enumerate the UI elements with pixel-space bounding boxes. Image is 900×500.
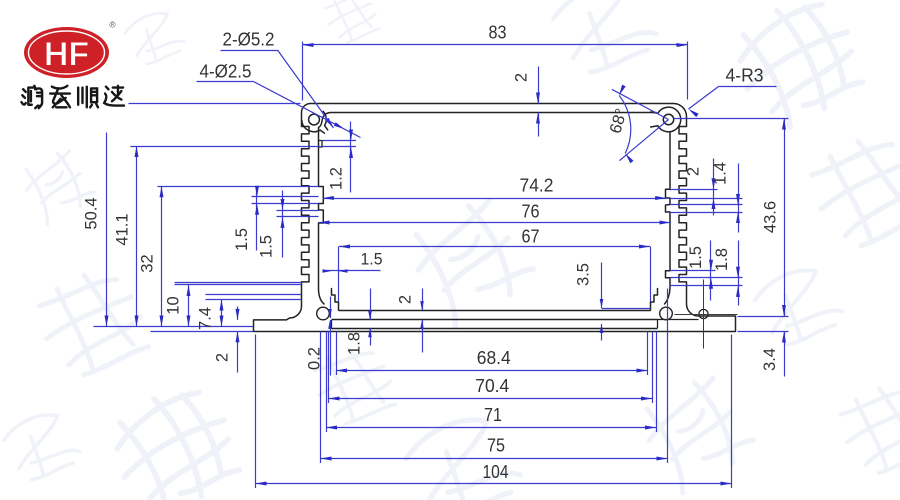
svg-text:2: 2 — [214, 353, 232, 362]
svg-text:1.8: 1.8 — [713, 248, 731, 271]
svg-text:3.5: 3.5 — [575, 263, 593, 286]
svg-text:4-Ø2.5: 4-Ø2.5 — [200, 61, 252, 82]
svg-text:3.4: 3.4 — [761, 348, 779, 371]
svg-text:104: 104 — [483, 462, 509, 482]
svg-text:2: 2 — [513, 73, 531, 82]
svg-text:10: 10 — [165, 296, 183, 314]
svg-text:83: 83 — [489, 23, 507, 43]
svg-text:70.4: 70.4 — [475, 376, 509, 396]
svg-text:1.5: 1.5 — [258, 235, 276, 258]
svg-text:1.5: 1.5 — [361, 250, 383, 269]
svg-text:32: 32 — [139, 254, 157, 272]
svg-text:43.6: 43.6 — [762, 201, 780, 233]
svg-text:2-Ø5.2: 2-Ø5.2 — [223, 29, 275, 50]
svg-text:1.2: 1.2 — [328, 167, 346, 190]
svg-text:75: 75 — [487, 436, 505, 456]
svg-text:1.4: 1.4 — [712, 162, 730, 185]
svg-text:2: 2 — [397, 295, 415, 304]
svg-text:7.4: 7.4 — [197, 307, 215, 330]
svg-text:76: 76 — [522, 202, 540, 222]
svg-text:2: 2 — [685, 167, 703, 176]
svg-text:®: ® — [109, 20, 116, 30]
svg-text:50.4: 50.4 — [83, 197, 101, 229]
svg-text:HF: HF — [44, 36, 89, 74]
svg-text:74.2: 74.2 — [520, 176, 554, 196]
svg-text:1.8: 1.8 — [346, 332, 364, 355]
svg-text:67: 67 — [522, 227, 540, 247]
svg-text:4-R3: 4-R3 — [726, 65, 764, 86]
svg-text:1.5: 1.5 — [687, 246, 705, 269]
svg-text:68.4: 68.4 — [477, 348, 511, 368]
svg-text:41.1: 41.1 — [114, 213, 132, 245]
svg-text:1.5: 1.5 — [233, 228, 251, 251]
svg-text:71: 71 — [484, 405, 502, 425]
